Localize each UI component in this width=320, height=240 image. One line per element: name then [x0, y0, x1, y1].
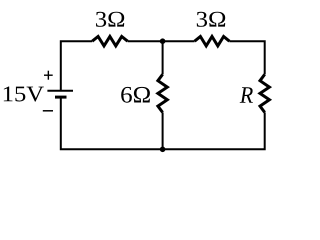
resistor R (right vertical zigzag): [260, 74, 269, 112]
wire: top right lead + top-right corner + right branch upper: [229, 41, 264, 74]
wire: middle branch lower to node B: [162, 112, 164, 149]
node A junction dot (top middle): [160, 38, 166, 44]
value label 6-ohm: [121, 87, 150, 103]
label R: [240, 87, 253, 103]
wire: top middle segment between R1 and R2: [128, 40, 195, 42]
wire: middle branch upper from node A: [162, 41, 164, 74]
resistor R1 3ohm (left horizontal zigzag): [92, 37, 127, 46]
resistor R2 3ohm (right horizontal zigzag): [195, 37, 230, 46]
battery plus sign: [44, 71, 53, 80]
node B junction dot (bottom middle): [160, 147, 166, 153]
source value label 15V: [4, 87, 44, 102]
value label 3-ohm for R1: [96, 12, 124, 27]
value label 3-ohm for R2: [197, 12, 225, 27]
resistor R3 6ohm (middle vertical zigzag): [158, 74, 167, 112]
battery V1 long positive plate: [47, 90, 73, 92]
battery minus sign: [43, 110, 53, 112]
wire: right branch lower + bottom-right corner + bottom wire + bottom-left corner + left branch lower: [61, 98, 265, 150]
wire: left branch upper + top-left corner + top lead to R1: [61, 41, 92, 90]
battery V1 short negative plate: [55, 96, 67, 99]
